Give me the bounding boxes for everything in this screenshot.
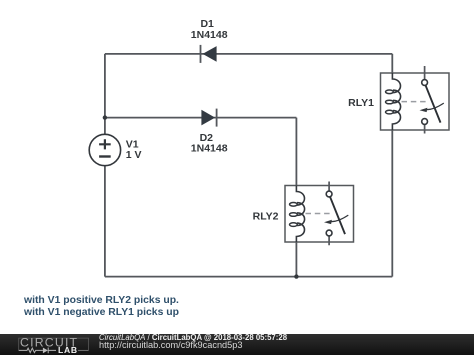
- svg-text:RLY1: RLY1: [348, 97, 374, 109]
- svg-text:RLY2: RLY2: [253, 210, 279, 222]
- svg-text:with V1 negative RLY1 picks up: with V1 negative RLY1 picks up: [23, 307, 179, 318]
- svg-text:LAB: LAB: [58, 345, 78, 355]
- svg-text:1 V: 1 V: [126, 149, 142, 161]
- svg-text:1N4148: 1N4148: [191, 143, 228, 155]
- svg-text:1N4148: 1N4148: [191, 29, 228, 41]
- svg-text:with V1 positive RLY2 picks up: with V1 positive RLY2 picks up.: [23, 295, 179, 306]
